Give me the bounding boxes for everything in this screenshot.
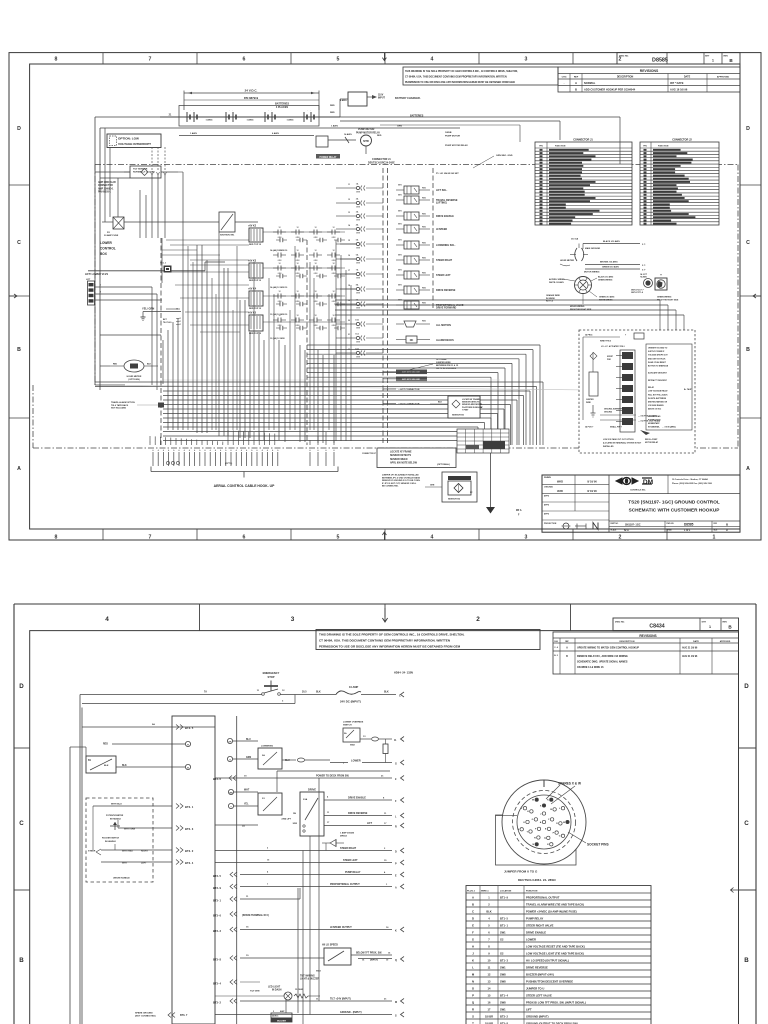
svg-text:12: 12 — [332, 263, 334, 265]
svg-text:CHG: CHG — [554, 641, 559, 643]
svg-text:1: 1 — [259, 442, 260, 444]
sheet 2 proprietary note — [316, 630, 540, 650]
svg-text:1: 1 — [150, 442, 151, 444]
svg-text:1: 1 — [186, 442, 187, 444]
alarm decals box — [396, 336, 454, 343]
svg-text:RED B+ PUMP: RED B+ PUMP — [645, 439, 658, 441]
svg-text:BT1- 3: BT1- 3 — [500, 958, 508, 962]
svg-text:LOCATE AT FRAME: LOCATE AT FRAME — [462, 398, 480, 401]
svg-text:GMT A?CT1 A: GMT A?CT1 A — [631, 291, 644, 294]
svg-text:SW2: SW2 — [350, 745, 356, 747]
svg-text:TRAVEL ALARM OPTION: TRAVEL ALARM OPTION — [111, 401, 135, 404]
svg-text:R: R — [472, 1007, 474, 1011]
svg-text:PROJECTION: PROJECTION — [544, 523, 557, 525]
svg-text:SW1: SW1 — [500, 930, 506, 934]
svg-text:1: 1 — [196, 442, 197, 444]
svg-text:ARE RECHARGED OR: ARE RECHARGED OR — [648, 401, 668, 404]
ground symbol sheet1 — [486, 453, 522, 517]
svg-text:LIFT/ LOWER VLVS: LIFT/ LOWER VLVS — [85, 273, 108, 276]
svg-text:LOWER: LOWER — [351, 759, 361, 763]
amp circular connector note — [98, 147, 167, 238]
svg-text:BROWN #10 AWG: BROWN #10 AWG — [600, 261, 618, 264]
svg-text:POWER RELAY: POWER RELAY — [320, 156, 337, 159]
svg-text:BT3- 6: BT3- 6 — [213, 914, 221, 918]
svg-text:SMALL PIN ?: SMALL PIN ? — [610, 426, 623, 429]
svg-text:DESCRIPTION: DESCRIPTION — [620, 641, 635, 643]
svg-text:IGNITION SW.: IGNITION SW. — [220, 235, 235, 237]
svg-text:IN DASH: IN DASH — [272, 989, 282, 992]
AR1 key switch ground labels — [383, 370, 427, 382]
svg-text:12: 12 — [314, 227, 316, 229]
svg-text:GROUND JUMPER P/N: GROUND JUMPER P/N — [604, 409, 624, 411]
svg-text:RED: RED — [422, 187, 427, 189]
svg-text:HD64- 24- 132N: HD64- 24- 132N — [394, 671, 413, 675]
terminal grid table — [457, 429, 509, 453]
svg-text:WAD: WAD — [557, 480, 563, 484]
svg-text:D: D — [472, 916, 474, 920]
svg-text:BLK: BLK — [438, 402, 443, 404]
svg-text:1: 1 — [233, 442, 234, 444]
svg-text:14 (4A) 12 GRN 10: 14 (4A) 12 GRN 10 — [270, 249, 288, 252]
lower signal wire — [330, 759, 404, 766]
svg-text:REV: REV — [723, 621, 728, 623]
svg-text:LOW VOLTAGE LIGHT (TIE AND TAP: LOW VOLTAGE LIGHT (TIE AND TAPE BACK) — [526, 951, 584, 955]
svg-text:LOWERING: LOWERING — [261, 746, 273, 748]
drive reverse wire — [324, 812, 404, 819]
svg-text:BR1: BR1 — [398, 284, 402, 286]
svg-text:PROPORTIONAL OUTPUT: PROPORTIONAL OUTPUT — [330, 883, 360, 886]
svg-text:P: P — [472, 993, 474, 997]
svg-text:SW8: SW8 — [500, 1000, 506, 1004]
svg-text:D: D — [17, 126, 21, 132]
svg-text:GRN: GRN — [356, 263, 361, 265]
svg-text:1: 1 — [326, 442, 327, 444]
svg-text:(LIFTING): (LIFTING) — [436, 202, 447, 205]
emergency stop switch — [257, 671, 413, 696]
svg-text:DR502: DR502 — [340, 836, 348, 838]
battery bank dimension lines — [184, 89, 319, 110]
svg-text:N: N — [472, 979, 474, 983]
svg-text:BR1: BR1 — [398, 269, 402, 271]
svg-text:2A: 2A — [262, 754, 265, 757]
upper vertical comb extension — [188, 246, 329, 430]
svg-text:CONTROLS INC.: CONTROLS INC. — [630, 490, 646, 492]
svg-text:IN HANDLE: IN HANDLE — [110, 817, 122, 820]
jumper JP1 note — [382, 474, 421, 488]
svg-text:12: 12 — [296, 227, 298, 229]
svg-text:7A: 7A — [204, 691, 207, 694]
svg-text:RED TOP 12: RED TOP 12 — [249, 308, 262, 310]
tilt warning cluster — [213, 975, 320, 1001]
svg-text:PLATFORM IS BELOW: PLATFORM IS BELOW — [462, 406, 482, 409]
svg-text:BT3- 4: BT3- 4 — [213, 982, 221, 986]
svg-text:BT1- 9: BT1- 9 — [500, 895, 508, 899]
svg-text:SW1: SW1 — [500, 1007, 506, 1011]
svg-text:MOMENTARY: MOMENTARY — [648, 422, 660, 425]
plug function table — [466, 886, 651, 1024]
svg-text:11A: 11A — [355, 333, 359, 336]
svg-text:WIRE: WIRE — [586, 402, 591, 404]
svg-text:1: 1 — [207, 442, 208, 444]
svg-text:MTR: MTR — [363, 139, 369, 143]
pump relay wire — [213, 871, 404, 879]
svg-text:AMP 206060-1: AMP 206060-1 — [98, 187, 114, 190]
svg-text:SENSOR WHEN: SENSOR WHEN — [390, 459, 408, 461]
svg-text:ROCKER SWITCH: ROCKER SWITCH — [102, 838, 120, 840]
svg-text:NOT INCLUDED: NOT INCLUDED — [111, 408, 127, 410]
svg-text:REMOVE IF GROUND 2 IS TO BE CO: REMOVE IF GROUND 2 IS TO BE CONN. — [382, 480, 421, 482]
option low voltage interrupt box — [107, 134, 161, 148]
svg-text:LOWER: LOWER — [526, 937, 536, 941]
svg-text:BT3- 5: BT3- 5 — [213, 874, 221, 878]
svg-text:12: 12 — [278, 291, 280, 293]
svg-text:K: K — [472, 958, 474, 962]
svg-text:CONNECTOR J?: CONNECTOR J? — [362, 453, 376, 455]
svg-text:RED TOP 12: RED TOP 12 — [249, 333, 262, 335]
svg-text:D8585: D8585 — [684, 523, 694, 527]
svg-text:PUSHBUTTON DESCENT OVERRIDE: PUSHBUTTON DESCENT OVERRIDE — [526, 979, 573, 983]
svg-text:GRN: GRN — [356, 328, 361, 330]
left area interconnect wires — [95, 232, 356, 443]
svg-text:2: 2 — [619, 535, 622, 541]
svg-text:INT * DATE: INT * DATE — [670, 81, 684, 85]
optional jumper wire note — [400, 358, 459, 372]
svg-text:IN INSIDE: IN INSIDE — [546, 298, 555, 300]
svg-text:SCALE: SCALE — [611, 528, 618, 531]
svg-text:BT3- 8: BT3- 8 — [213, 958, 221, 962]
svg-text:3: 3 — [525, 57, 528, 63]
svg-text:14 AWG: 14 AWG — [344, 133, 352, 136]
svg-text:PERMISSION TO USE OR DISCLOSE: PERMISSION TO USE OR DISCLOSE ANY INFORM… — [405, 81, 516, 84]
svg-text:LIFT SOL.: LIFT SOL. — [436, 189, 448, 192]
svg-text:Q: Q — [395, 959, 397, 962]
svg-text:WIRE? P/N 4: WIRE? P/N 4 — [600, 340, 611, 343]
svg-text:1: 1 — [274, 442, 275, 444]
svg-text:6: 6 — [243, 535, 246, 541]
svg-text:PROX B/ LOW 7FT PROX. SW. (INP: PROX B/ LOW 7FT PROX. SW. (INPUT SIGNAL) — [526, 1000, 586, 1004]
svg-text:+6V K4: +6V K4 — [248, 288, 257, 291]
svg-text:5: 5 — [337, 535, 340, 541]
svg-text:SUPPLY POWER IF: SUPPLY POWER IF — [648, 351, 665, 353]
svg-text:8/ 16/ 96: 8/ 16/ 96 — [587, 490, 597, 493]
svg-text:PUMP MOTOR: PUMP MOTOR — [358, 128, 375, 131]
svg-text:RED: RED — [422, 213, 427, 215]
spare ground note — [135, 1012, 188, 1018]
svg-text:YEL: YEL — [244, 804, 249, 806]
svg-text:1: 1 — [269, 442, 270, 444]
svg-text:TILT +24V (INPUT): TILT +24V (INPUT) — [330, 998, 351, 1001]
detail dashed box low voltage cutout — [579, 330, 695, 453]
svg-text:LOWER: LOWER — [100, 241, 113, 245]
yel-grn ground — [141, 307, 182, 321]
handle dashed box — [86, 798, 172, 882]
svg-text:IN HANDLE: IN HANDLE — [105, 840, 117, 843]
svg-text:TILT WARING: TILT WARING — [300, 975, 315, 978]
svg-text:IN UNTIL BATTERIES: IN UNTIL BATTERIES — [648, 397, 667, 400]
svg-text:MOLEX WIRING: MOLEX WIRING — [570, 306, 585, 308]
svg-text:NORMALLY CLOSED: NORMALLY CLOSED — [133, 170, 155, 173]
valve coil column with labels — [396, 184, 464, 309]
svg-text:BLK: BLK — [147, 364, 152, 366]
svg-text:+6V K5: +6V K5 — [248, 312, 257, 315]
svg-text:(SW) LIFT: (SW) LIFT — [282, 819, 292, 821]
relay K3 — [248, 260, 263, 283]
svg-text:GROUND: GROUND — [604, 412, 613, 414]
svg-text:SENSOR DETECTS: SENSOR DETECTS — [390, 455, 412, 457]
svg-text:TIE & TAPE BACK: TIE & TAPE BACK — [111, 404, 129, 407]
svg-text:A: A — [746, 466, 750, 472]
svg-text:BT3- 5: BT3- 5 — [185, 726, 194, 730]
svg-text:GRN: GRN — [356, 308, 361, 310]
aerial cable stub wires — [152, 449, 335, 466]
svg-text:B: B — [19, 957, 24, 964]
svg-text:1A 10?T: 1A 10?T — [640, 273, 648, 276]
svg-text:DRIVE: DRIVE — [308, 788, 316, 792]
svg-text:C8434: C8434 — [649, 624, 664, 630]
svg-text:12: 12 — [314, 315, 316, 317]
svg-text:D: D — [726, 529, 728, 532]
svg-text:110V: 110V — [378, 95, 384, 97]
svg-text:1 AWG: 1 AWG — [190, 132, 197, 135]
svg-text:SCHEMATIC DWG. UPDATE SIGNAL N: SCHEMATIC DWG. UPDATE SIGNAL NAMES — [577, 661, 628, 664]
svg-text:8: 8 — [55, 57, 58, 63]
svg-text:HOUR METER: HOUR METER — [560, 260, 574, 262]
pump motor relay MTR — [316, 128, 382, 159]
svg-text:D: D — [395, 851, 397, 854]
svg-text:DATE: DATE — [684, 76, 691, 79]
svg-text:STEER LEFT: STEER LEFT — [343, 859, 358, 862]
svg-text:WHITE #10 AWG: WHITE #10 AWG — [549, 281, 564, 284]
deutsch circular connector — [496, 780, 609, 882]
svg-text:(LOCATED IN HANDRAIL) SYSTEM I: (LOCATED IN HANDRAIL) SYSTEM IS NOT — [603, 442, 642, 445]
svg-text:H: H — [472, 944, 474, 948]
svg-text:12: 12 — [296, 263, 298, 265]
svg-text:INSTALLED: INSTALLED — [603, 445, 614, 448]
svg-text:BT3- 1: BT3- 1 — [213, 899, 221, 903]
svg-text:← #19 B (AWG): ← #19 B (AWG) — [662, 426, 676, 429]
svg-text:12: 12 — [314, 291, 316, 293]
svg-text:#4 POS ?: #4 POS ? — [585, 426, 594, 429]
svg-text:(NOT CONNECTED): (NOT CONNECTED) — [135, 1016, 156, 1018]
svg-text:BELOW 7FT PROX. SW.: BELOW 7FT PROX. SW. — [356, 953, 382, 955]
svg-text:DATE: DATE — [693, 640, 699, 643]
frame sensor note box redraw — [448, 396, 482, 418]
svg-text:HI SPEED: HI SPEED — [436, 228, 447, 231]
svg-text:HI/ LO SPEED: HI/ LO SPEED — [322, 944, 338, 947]
svg-text:KEY? A: KEY? A — [546, 300, 553, 303]
svg-text:PROPORTIONAL OUTPUT: PROPORTIONAL OUTPUT — [526, 895, 560, 899]
sheet 1 title block — [542, 475, 740, 532]
svg-text:JUMPER: JUMPER — [586, 399, 594, 401]
connector J2 function table — [640, 139, 719, 226]
svg-text:A: A — [472, 895, 474, 899]
svg-text:CONNECTOR: CONNECTOR — [98, 185, 113, 187]
svg-text:LOCATE AT FRAME: LOCATE AT FRAME — [390, 451, 412, 454]
svg-text:D: D — [746, 126, 750, 132]
spare terminal row — [213, 912, 269, 918]
svg-text:WHT/ RED: WHT/ RED — [122, 851, 133, 853]
svg-text:10 AMP: 10 AMP — [349, 685, 359, 689]
svg-text:BR1: BR1 — [398, 210, 402, 212]
svg-text:12: 12 — [332, 250, 334, 252]
pump motor labels right — [445, 132, 513, 168]
svg-text:4: 4 — [431, 535, 434, 541]
svg-text:GRN: GRN — [356, 248, 361, 250]
svg-text:WILL NOT PULL BACK: WILL NOT PULL BACK — [648, 393, 668, 396]
svg-text:RED: RED — [422, 197, 427, 199]
battery feed wires right — [340, 117, 620, 164]
svg-text:30 AMP FUSE: 30 AMP FUSE — [104, 234, 119, 237]
svg-text:P1. L01 VALVE GE SET: P1. L01 VALVE GE SET — [436, 172, 459, 175]
svg-text:12: 12 — [348, 199, 350, 201]
svg-text:PART NO.: PART NO. — [611, 522, 619, 525]
svg-text:12: 12 — [278, 263, 280, 265]
svg-text:BLACK #10 AWG: BLACK #10 AWG — [603, 240, 620, 243]
drive switch circuit left side — [215, 789, 282, 827]
svg-text:E: E — [472, 923, 474, 927]
svg-text:RED: RED — [422, 302, 427, 304]
sheet 1 revisions table — [558, 67, 740, 92]
drive selector box — [282, 788, 324, 837]
svg-text:BT1- 4: BT1- 4 — [500, 993, 508, 997]
svg-text:CHG: CHG — [562, 77, 567, 79]
fuse and ignition switch boxes — [102, 212, 258, 237]
svg-text:SN1197- 1GC: SN1197- 1GC — [625, 523, 641, 526]
svg-text:RED: RED — [330, 105, 335, 107]
BT3 pin rows on terminal board — [176, 804, 194, 866]
svg-text:30.5: 30.5 — [302, 692, 307, 694]
svg-text:SENSOR B1: SENSOR B1 — [452, 415, 465, 417]
svg-text:PUMP MOTOR RELAY: PUMP MOTOR RELAY — [445, 144, 468, 147]
hi speed output wire — [213, 926, 404, 933]
svg-text:GRN: GRN — [356, 233, 361, 235]
svg-text:P/N 887919: P/N 887919 — [244, 96, 259, 100]
drive enable wire — [324, 796, 404, 804]
svg-text:RED: RED — [422, 257, 427, 259]
svg-text:POTENTIOMETER: POTENTIOMETER — [106, 815, 124, 817]
svg-text:1: 1 — [191, 442, 192, 444]
sensor B2 diamond box — [425, 472, 477, 502]
svg-text:APPD: APPD — [544, 495, 550, 498]
svg-text:CONTROL: CONTROL — [100, 247, 116, 251]
svg-text:C: C — [746, 240, 750, 246]
svg-text:G: G — [395, 763, 397, 766]
svg-text:12: 12 — [332, 315, 334, 317]
svg-text:BT3- 6: BT3- 6 — [213, 777, 221, 781]
svg-text:SW8: SW8 — [500, 972, 506, 976]
svg-text:(OPTIONS): (OPTIONS) — [128, 379, 140, 381]
svg-text:#1 L.V.C. ACTUATES? P/N 6: #1 L.V.C. ACTUATES? P/N 6 — [601, 345, 625, 348]
svg-text:CT 06484, USA. THIS DOCUMENT C: CT 06484, USA. THIS DOCUMENT CONTAINS GE… — [319, 639, 450, 643]
svg-text:M: M — [563, 822, 565, 824]
svg-text:1: 1 — [176, 442, 177, 444]
svg-text:19: 19 — [348, 300, 350, 302]
svg-text:SPARES X & W: SPARES X & W — [558, 782, 581, 786]
svg-text:GRN WH1. GND: GRN WH1. GND — [496, 155, 513, 157]
svg-text:1: 1 — [217, 442, 218, 444]
svg-text:12: 12 — [314, 263, 316, 265]
svg-text:← →: ← → — [268, 110, 273, 112]
svg-text:4: 4 — [105, 616, 109, 623]
sheet 1 drawing-number strip D8585 — [617, 53, 740, 64]
svg-text:LEFT: LEFT — [141, 863, 147, 865]
svg-text:1: 1 — [212, 442, 213, 444]
svg-text:PUMP MOTOR: PUMP MOTOR — [445, 136, 460, 138]
svg-text:17: 17 — [348, 270, 350, 272]
svg-text:1: 1 — [243, 442, 244, 444]
svg-text:BATTERY CHARGER.: BATTERY CHARGER. — [395, 97, 421, 100]
svg-text:APPD: APPD — [544, 513, 550, 516]
svg-text:GRN: GRN — [356, 342, 361, 344]
svg-text:1: 1 — [202, 442, 203, 444]
svg-text:THIS DRAWING IS THE SOLE PROPE: THIS DRAWING IS THE SOLE PROPERTY OF GEM… — [405, 70, 518, 73]
svg-text:WHT: WHT — [122, 863, 128, 865]
svg-text:STEER: STEER — [88, 851, 96, 853]
svg-text:POWER TO DECK FROM SW.: POWER TO DECK FROM SW. — [316, 775, 349, 778]
svg-text:?4 AWG: ?4 AWG — [640, 276, 647, 279]
gray leader line to detail — [125, 386, 588, 391]
proportional output wire — [213, 883, 404, 890]
svg-text:1 AWG: 1 AWG — [287, 118, 294, 121]
svg-text:WHITE WIRING: WHITE WIRING — [599, 299, 613, 301]
svg-text:STEER RIGHT VALVE: STEER RIGHT VALVE — [526, 923, 554, 927]
tilt 24v input wire — [213, 998, 404, 1005]
svg-text:B: B — [575, 87, 577, 91]
svg-text:BT1- 5: BT1- 5 — [500, 916, 508, 920]
svg-text:1: 1 — [222, 442, 223, 444]
svg-text:SHT: SHT — [702, 621, 707, 623]
BT3-5 row — [82, 723, 215, 730]
svg-text:12: 12 — [296, 250, 298, 252]
svg-text:SWITCH: SWITCH — [343, 725, 352, 727]
svg-text:10A: 10A — [355, 319, 359, 322]
sheet 1 proprietary note — [403, 67, 558, 85]
svg-text:GRN: GRN — [356, 357, 361, 359]
svg-text:B+ TAUP: B+ TAUP — [684, 388, 692, 391]
svg-text:RED: RED — [422, 226, 427, 228]
svg-text:BUTTON TO ENERGIZE: BUTTON TO ENERGIZE — [648, 366, 669, 368]
sheet 2 drawing frame — [14, 604, 756, 1024]
svg-text:STEER RIGHT: STEER RIGHT — [436, 259, 453, 262]
svg-text:CT 06484, USA. THIS DOCUMENT C: CT 06484, USA. THIS DOCUMENT CONTAINS GE… — [405, 76, 507, 79]
svg-text:PLUG #: PLUG # — [467, 891, 476, 893]
all motion horn symbol — [396, 321, 451, 327]
small round connector — [631, 273, 653, 294]
svg-text:GREEN #10 AWG: GREEN #10 AWG — [599, 296, 615, 299]
svg-text:IF JP1 IS NOT CUT, SENSOR 2 WI: IF JP1 IS NOT CUT, SENSOR 2 WILL — [382, 483, 417, 485]
svg-text:ORN/WHT IS USED TO: ORN/WHT IS USED TO — [648, 348, 668, 350]
svg-text:GRN: GRN — [397, 126, 402, 128]
lift lower valves connector — [85, 273, 162, 390]
svg-text:AERIAL CONTROL CABLE HOOK-: AERIAL CONTROL CABLE HOOK- UP — [214, 484, 275, 488]
svg-text:GRN: GRN — [356, 207, 361, 209]
svg-text:← →: ← → — [307, 110, 312, 112]
svg-text:21: 21 — [348, 334, 350, 336]
svg-text:LOWERING SOL.: LOWERING SOL. — [436, 244, 456, 247]
svg-text:STEER RIGHT: STEER RIGHT — [340, 847, 357, 850]
svg-text:RELAY: RELAY — [648, 386, 655, 389]
svg-text:ALTERN. WIRING: ALTERN. WIRING — [549, 278, 565, 281]
svg-text:ALARM DECKS: ALARM DECKS — [436, 339, 454, 342]
svg-text:12: 12 — [296, 291, 298, 293]
svg-text:NC: NC — [410, 339, 414, 342]
svg-text:PERMISSION TO USE OR DISCLOSE: PERMISSION TO USE OR DISCLOSE ANY INFORM… — [319, 645, 461, 649]
svg-text:DM: DM — [643, 479, 654, 486]
svg-text:D: D — [744, 683, 749, 690]
svg-text:INPUT: INPUT — [378, 98, 385, 100]
svg-text:R: R — [395, 826, 397, 829]
svg-text:#4 PIN 4: #4 PIN 4 — [585, 334, 593, 337]
